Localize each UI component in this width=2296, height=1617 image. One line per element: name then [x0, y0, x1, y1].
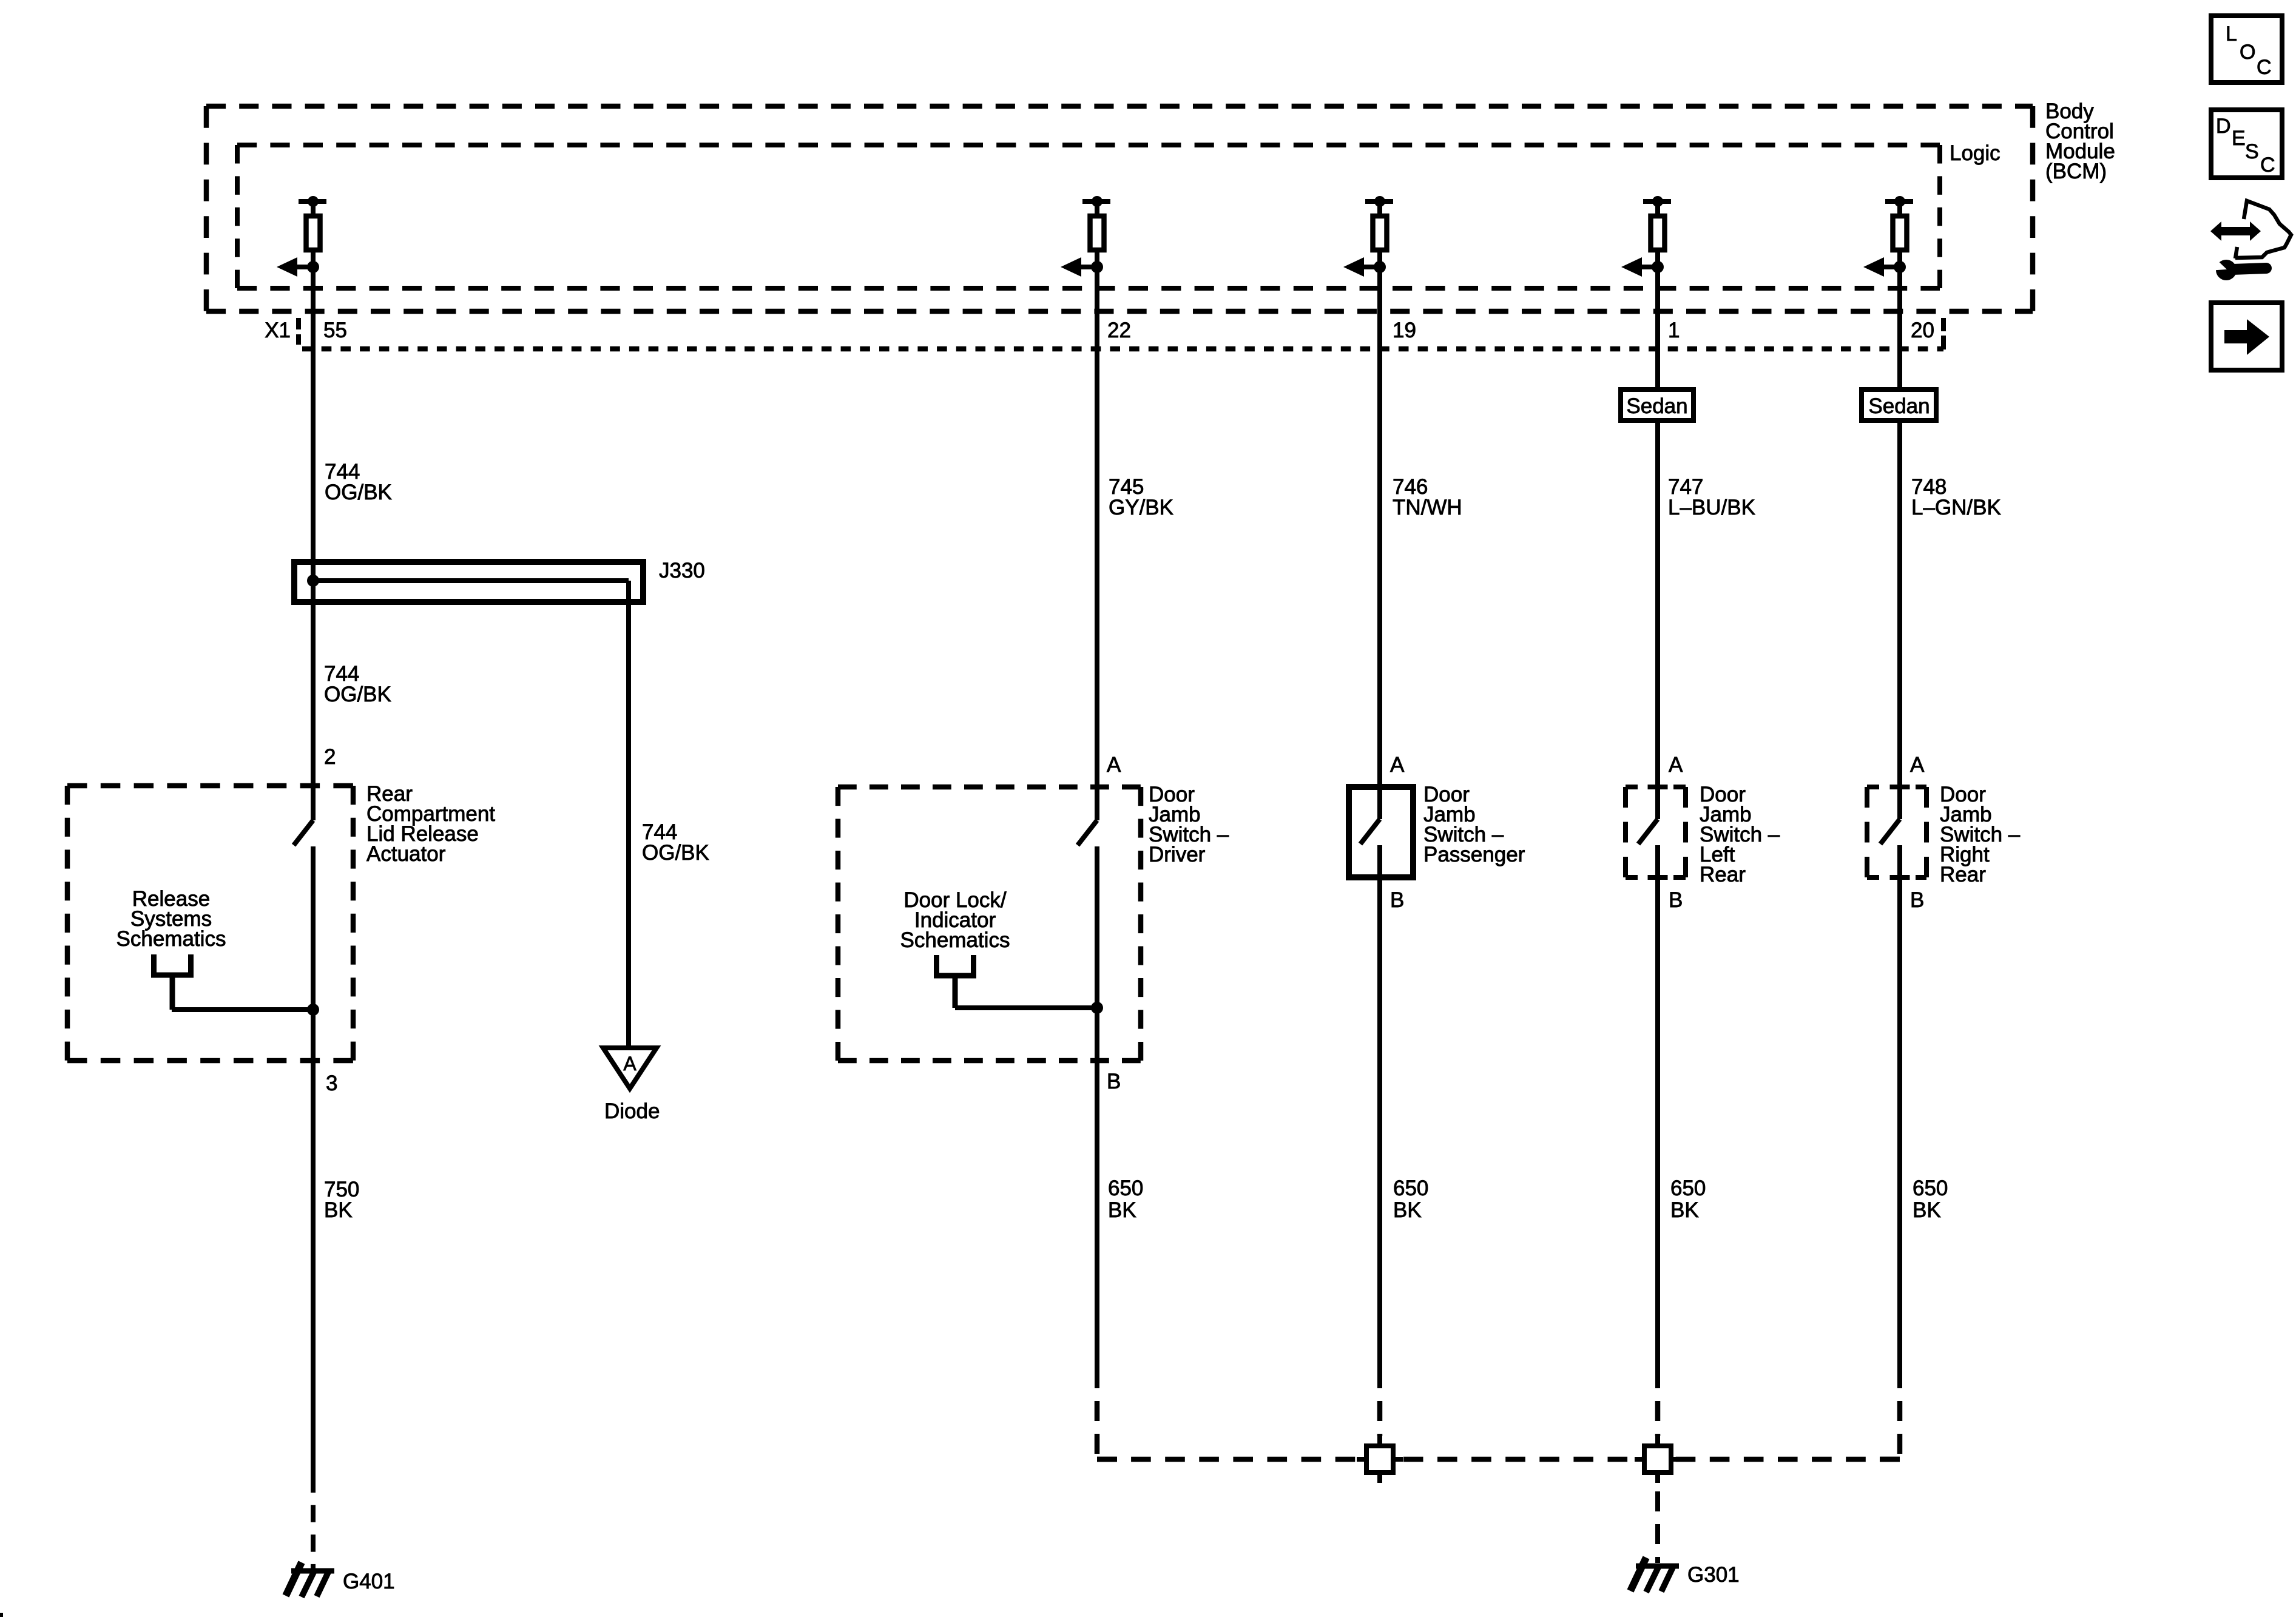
svg-text:ReleaseSystemsSchematics: ReleaseSystemsSchematics — [116, 887, 226, 951]
svg-text:2: 2 — [324, 745, 336, 769]
svg-text:C: C — [2260, 154, 2275, 177]
svg-text:L: L — [2226, 22, 2237, 46]
svg-text:A: A — [1910, 753, 1925, 777]
svg-text:B: B — [1910, 888, 1924, 912]
svg-text:Diode: Diode — [604, 1099, 660, 1123]
svg-text:Logic: Logic — [1950, 141, 2001, 165]
svg-text:B: B — [1669, 888, 1683, 912]
svg-text:D: D — [2216, 115, 2231, 138]
svg-text:1: 1 — [1668, 319, 1680, 342]
svg-text:E: E — [2232, 127, 2246, 150]
svg-text:C: C — [2257, 56, 2272, 79]
svg-text:A: A — [1669, 753, 1683, 777]
svg-text:X1: X1 — [265, 319, 291, 342]
svg-text:G301: G301 — [1687, 1563, 1740, 1587]
svg-text:O: O — [2240, 41, 2255, 64]
svg-text:55: 55 — [323, 319, 347, 342]
svg-text:S: S — [2245, 140, 2259, 163]
svg-text:Sedan: Sedan — [1868, 394, 1930, 418]
svg-text:Sedan: Sedan — [1626, 394, 1687, 418]
svg-text:A: A — [623, 1053, 636, 1075]
svg-text:22: 22 — [1107, 319, 1131, 342]
svg-text:J330: J330 — [659, 559, 705, 582]
svg-text:Door Lock/IndicatorSchematics: Door Lock/IndicatorSchematics — [900, 888, 1010, 952]
svg-text:B: B — [1390, 888, 1404, 912]
svg-text:A: A — [1107, 753, 1121, 777]
svg-text:3: 3 — [326, 1072, 337, 1095]
svg-text:A: A — [1390, 753, 1405, 777]
svg-text:19: 19 — [1393, 319, 1416, 342]
svg-text:20: 20 — [1911, 319, 1934, 342]
svg-text:B: B — [1107, 1070, 1121, 1093]
svg-text:G401: G401 — [343, 1570, 395, 1593]
